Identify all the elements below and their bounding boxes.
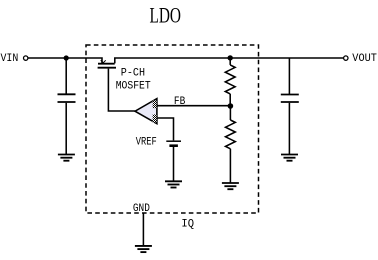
svg-text:MOSFET: MOSFET	[116, 80, 151, 92]
terminal VIN	[24, 56, 28, 60]
node FB junction dot	[228, 103, 234, 109]
wire MOSFET drain to rail	[115, 58, 344, 63]
wire FB node to R2	[229, 106, 231, 120]
wire VREF to ground	[173, 147, 175, 181]
capacitor COUT	[281, 95, 299, 103]
dashed LDO block boundary	[86, 45, 259, 213]
battery VREF reference cell	[166, 141, 181, 146]
wire output cap bottom lead	[288, 103, 290, 155]
wire op-amp bottom input to VREF	[157, 118, 174, 140]
svg-text:VOUT: VOUT	[352, 53, 377, 65]
capacitor CIN	[58, 94, 76, 102]
resistor R1 upper feedback	[225, 65, 235, 94]
wire gate lead to op-amp output	[108, 69, 135, 111]
svg-text:VIN: VIN	[1, 53, 19, 65]
ground VREF	[165, 181, 182, 187]
ground GND pin	[135, 246, 152, 252]
wire input cap top lead	[65, 58, 67, 94]
wire output cap top lead	[288, 58, 290, 95]
svg-text:GND: GND	[133, 203, 150, 215]
wire VIN rail to MOSFET source	[28, 58, 102, 63]
wire divider top lead	[229, 58, 231, 65]
node junction dot rail to divider	[228, 55, 233, 60]
svg-text:P-CH: P-CH	[121, 67, 145, 79]
svg-text:IQ: IQ	[181, 219, 194, 231]
wire input cap bottom lead	[65, 103, 67, 155]
wire op-amp top input to FB node	[157, 105, 231, 107]
terminal VOUT	[344, 56, 348, 60]
node junction dot input cap	[64, 55, 69, 60]
svg-text:LDO: LDO	[150, 3, 182, 28]
transistor Q1 P-CH MOSFET	[98, 60, 116, 67]
ground input cap	[58, 155, 75, 161]
svg-text:VREF: VREF	[136, 137, 157, 149]
wire R2 to ground	[229, 149, 231, 183]
wire R1 to FB node	[229, 94, 231, 106]
svg-text:FB: FB	[174, 96, 186, 108]
ground divider	[222, 183, 239, 189]
resistor R2 lower feedback	[226, 120, 236, 149]
wire GND pin	[142, 213, 144, 246]
ground output cap	[281, 155, 298, 161]
op-amp U1 error amplifier	[135, 99, 157, 124]
